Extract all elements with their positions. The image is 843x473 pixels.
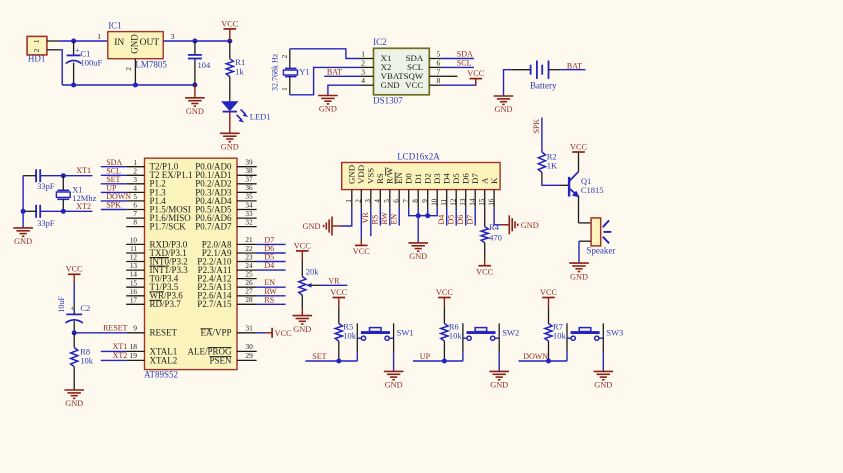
value SW1 label (397, 328, 414, 338)
svg-text:14: 14 (130, 271, 138, 279)
svg-text:GND: GND (570, 272, 588, 281)
svg-text:1: 1 (345, 199, 353, 203)
net label RS (264, 295, 274, 304)
svg-text:VCC: VCC (570, 142, 588, 151)
svg-text:8: 8 (411, 199, 419, 203)
pin 8 (429, 76, 442, 85)
svg-text:K: K (489, 177, 499, 184)
wire (442, 66, 474, 68)
pin 26 (237, 279, 257, 287)
svg-text:26: 26 (245, 279, 253, 287)
svg-text:9: 9 (421, 199, 429, 203)
svg-text:P1.7/SCK: P1.7/SCK (150, 222, 187, 232)
pin 6 (392, 190, 400, 208)
value R7 label (553, 322, 567, 341)
svg-text:37: 37 (245, 176, 253, 184)
svg-text:38: 38 (245, 167, 253, 175)
svg-text:D6: D6 (456, 215, 465, 225)
net label VR (328, 276, 340, 285)
power VCC (467, 69, 485, 85)
connector HD1 (27, 36, 59, 63)
svg-text:D5: D5 (447, 215, 456, 225)
crystal X1 (56, 176, 70, 212)
svg-text:GND: GND (221, 143, 239, 152)
ground (293, 316, 313, 334)
net label SET (312, 352, 326, 361)
ground (569, 263, 589, 281)
svg-text:20k: 20k (306, 267, 320, 277)
pin 2 (125, 59, 136, 85)
pin 21 (237, 236, 257, 244)
svg-text:XTAL2: XTAL2 (150, 355, 178, 365)
pin 13 (126, 262, 144, 270)
U1 pin names (150, 162, 232, 366)
svg-text:AT89S52: AT89S52 (144, 370, 178, 380)
net label XT2 (113, 351, 128, 360)
power VCC (540, 288, 558, 308)
net label UP (420, 352, 431, 361)
wire (566, 352, 568, 361)
svg-text:15: 15 (478, 198, 486, 206)
svg-text:27: 27 (245, 288, 253, 296)
svg-text:17: 17 (130, 296, 138, 304)
wire (602, 352, 604, 371)
pin 2 (280, 54, 289, 58)
svg-text:10k: 10k (343, 331, 357, 341)
wire (40, 210, 92, 212)
svg-text:D4: D4 (437, 215, 446, 225)
value 104 label (198, 60, 212, 70)
net label SET (106, 175, 120, 184)
svg-text:GND: GND (319, 105, 337, 114)
ground (64, 390, 84, 408)
svg-text:GND: GND (14, 237, 32, 246)
LCD pin names (346, 165, 498, 184)
ground (489, 371, 509, 389)
svg-text:BAT: BAT (567, 61, 582, 70)
svg-text:23: 23 (245, 253, 253, 261)
svg-text:XT2: XT2 (113, 351, 128, 360)
wire (427, 208, 429, 216)
pin 16 (487, 190, 495, 208)
wire (324, 75, 360, 77)
svg-text:D5: D5 (451, 173, 461, 184)
switch SW2 (463, 323, 499, 352)
svg-text:31: 31 (245, 323, 253, 332)
svg-text:SPK: SPK (106, 201, 121, 210)
pin 4 (374, 190, 382, 208)
pin 1 (97, 32, 101, 41)
wire (74, 332, 126, 334)
net label SPK (106, 201, 121, 210)
junction (71, 83, 76, 88)
net label RESET (103, 323, 128, 332)
wire (541, 118, 543, 153)
svg-text:9: 9 (133, 323, 137, 332)
svg-text:VCC: VCC (66, 265, 84, 274)
wire (519, 360, 568, 362)
svg-text:RS: RS (371, 215, 380, 225)
pin 3 (126, 176, 144, 184)
svg-text:100uF: 100uF (81, 58, 103, 68)
svg-text:29: 29 (245, 351, 253, 360)
svg-text:34: 34 (245, 201, 253, 209)
pin 5 (126, 193, 144, 201)
pin 13 (459, 190, 467, 208)
net label D5 (447, 215, 456, 225)
value R5 label (343, 322, 357, 341)
svg-text:RW: RW (380, 212, 389, 225)
svg-text:HD1: HD1 (28, 53, 46, 63)
svg-text:1K: 1K (547, 160, 558, 170)
svg-text:5: 5 (383, 199, 391, 203)
speaker LS1 (591, 218, 611, 246)
svg-text:RESET: RESET (103, 323, 128, 332)
svg-text:1: 1 (133, 159, 137, 167)
svg-text:VCC: VCC (353, 247, 371, 256)
svg-text:28: 28 (245, 296, 253, 304)
net label D4 (264, 261, 274, 270)
wire (320, 284, 348, 286)
resistor R5 (335, 308, 342, 362)
svg-text:2: 2 (280, 54, 289, 58)
svg-text:OUT: OUT (140, 38, 160, 48)
wire (305, 360, 357, 362)
net label SPK (532, 119, 541, 134)
net label UP (106, 184, 117, 193)
wire (101, 166, 126, 168)
svg-text:VCC: VCC (221, 19, 239, 28)
svg-text:10: 10 (130, 237, 138, 245)
pin 11 (126, 245, 144, 253)
svg-text:VCC: VCC (275, 329, 293, 338)
net label D6 (456, 215, 465, 225)
junction (72, 330, 77, 335)
svg-text:GND: GND (346, 165, 356, 184)
svg-text:5: 5 (437, 50, 441, 59)
power VCC (66, 265, 84, 284)
svg-text:XT1: XT1 (76, 166, 91, 175)
capacitor C1 (66, 41, 82, 85)
potentiometer RV1 20k (299, 260, 320, 316)
ground (318, 96, 338, 114)
wire (370, 208, 372, 237)
pin 24 (237, 262, 257, 270)
svg-text:XT1: XT1 (113, 342, 128, 351)
wire (194, 85, 196, 98)
svg-text:DOWN: DOWN (523, 352, 548, 361)
svg-text:GND: GND (521, 221, 539, 230)
svg-text:LED1: LED1 (250, 111, 271, 121)
svg-text:36: 36 (245, 184, 253, 192)
svg-text:RS: RS (264, 295, 274, 304)
wire (101, 191, 126, 193)
pin 9 (421, 190, 429, 208)
resistor R7 (545, 308, 552, 362)
svg-text:GND: GND (293, 325, 311, 334)
svg-text:VCC: VCC (436, 288, 454, 297)
junction (192, 83, 197, 88)
svg-text:IC2: IC2 (373, 37, 387, 47)
svg-text:33pF: 33pF (37, 218, 55, 228)
svg-text:2: 2 (33, 48, 41, 52)
LED D1 (221, 101, 248, 122)
pin 9 (126, 323, 144, 332)
svg-text:13: 13 (130, 262, 138, 270)
wire (229, 112, 231, 134)
svg-text:C2: C2 (80, 303, 90, 313)
pin 34 (237, 201, 257, 209)
ground (303, 217, 341, 236)
svg-text:3: 3 (361, 67, 365, 76)
wire (163, 40, 230, 42)
power VCC (330, 288, 348, 308)
svg-text:SPK: SPK (532, 119, 541, 134)
net label D7 (466, 215, 475, 225)
svg-text:D3: D3 (432, 173, 442, 184)
junction (546, 359, 551, 364)
pin 2 (361, 58, 374, 67)
svg-text:104: 104 (198, 60, 212, 70)
ground (501, 215, 539, 234)
ground (594, 371, 614, 389)
pin 35 (237, 193, 257, 201)
ground (13, 228, 33, 246)
net label SCL (106, 166, 121, 175)
svg-text:8: 8 (437, 76, 441, 85)
wire (579, 222, 592, 224)
svg-text:2: 2 (133, 167, 137, 175)
resistor R4 (481, 208, 488, 259)
junction (192, 39, 197, 44)
svg-text:GND: GND (303, 222, 321, 231)
svg-text:GND: GND (129, 34, 139, 54)
svg-text:33pF: 33pF (37, 181, 55, 191)
wire (356, 352, 358, 361)
value X1 label (72, 184, 96, 203)
wire (101, 183, 126, 185)
power VCC (436, 288, 454, 308)
svg-text:VCC: VCC (476, 267, 494, 276)
pin 1 (280, 87, 289, 91)
wire (389, 208, 391, 226)
wire (40, 175, 92, 177)
net label SDA (106, 158, 122, 167)
net label SCL (457, 59, 472, 68)
pin 7 (126, 210, 144, 218)
wire (257, 252, 286, 254)
wire (257, 286, 286, 288)
svg-text:1: 1 (280, 87, 289, 91)
net label D6 (264, 244, 274, 253)
wire (446, 208, 448, 226)
pin 17 (126, 296, 144, 304)
svg-text:1: 1 (361, 50, 365, 59)
svg-text:11: 11 (440, 198, 448, 205)
wire (504, 70, 512, 96)
svg-text:SCL: SCL (457, 59, 472, 68)
svg-text:7: 7 (402, 199, 410, 203)
junction (133, 83, 138, 88)
svg-text:6: 6 (133, 202, 137, 210)
svg-text:10: 10 (430, 198, 438, 206)
wire (101, 359, 126, 361)
wire (341, 208, 352, 226)
pin 2 (355, 190, 363, 208)
wire (62, 84, 195, 86)
svg-text:IC1: IC1 (108, 21, 122, 31)
net label EN (390, 214, 399, 225)
svg-text:7: 7 (133, 210, 137, 218)
wire (257, 303, 286, 305)
svg-text:RS: RS (375, 173, 385, 184)
svg-text:32: 32 (245, 218, 253, 226)
net label SDA (457, 50, 473, 59)
wire (257, 269, 286, 271)
svg-text:VSS: VSS (365, 168, 375, 184)
svg-text:1: 1 (33, 39, 41, 43)
net label D7 (264, 235, 274, 244)
net label XT1 (113, 342, 128, 351)
wire (474, 208, 476, 226)
svg-text:D4: D4 (441, 173, 451, 184)
resistor R2 (538, 152, 545, 183)
value Q1 label (581, 176, 604, 195)
svg-text:DS1307: DS1307 (373, 96, 403, 106)
junction (61, 173, 66, 178)
pin 4 (126, 185, 144, 193)
resistor R8 (71, 333, 78, 390)
power VCC (221, 19, 239, 41)
pin 4 (361, 76, 374, 85)
junction (416, 213, 421, 218)
value 33pF label (37, 181, 55, 191)
svg-text:4: 4 (361, 76, 365, 85)
net label RS (371, 215, 380, 225)
svg-text:P2.7/A15: P2.7/A15 (197, 299, 232, 309)
power VCC (353, 239, 371, 256)
wire (257, 261, 286, 263)
pin 14 (126, 271, 144, 279)
wire (257, 243, 286, 245)
pin 10 (126, 237, 144, 245)
svg-text:470: 470 (489, 233, 502, 243)
wire (59, 40, 107, 42)
svg-text:C1815: C1815 (581, 185, 604, 195)
value SW3 label (606, 328, 623, 338)
wire (257, 332, 265, 334)
pin 32 (237, 218, 257, 226)
svg-text:21: 21 (245, 236, 253, 244)
svg-text:VDD: VDD (356, 165, 366, 184)
svg-text:IN: IN (114, 38, 124, 48)
svg-text:11: 11 (130, 245, 137, 253)
junction (425, 213, 430, 218)
wire (257, 295, 286, 297)
value SW2 label (502, 328, 519, 338)
wire (409, 208, 438, 216)
wire (398, 208, 400, 226)
pin 38 (237, 167, 257, 175)
svg-text:XT2: XT2 (76, 202, 91, 211)
svg-text:19: 19 (130, 351, 138, 360)
pin 15 (478, 190, 486, 208)
net label RW (380, 212, 389, 225)
svg-text:5: 5 (133, 193, 137, 201)
ground (185, 98, 205, 116)
svg-text:3: 3 (364, 199, 372, 203)
crystal Y1 (283, 49, 297, 95)
value 33pF label (37, 218, 55, 228)
svg-text:VR: VR (328, 276, 340, 285)
pin 12 (449, 190, 457, 208)
svg-text:10k: 10k (553, 331, 567, 341)
svg-text:GND: GND (594, 381, 612, 390)
svg-text:SDA: SDA (457, 50, 473, 59)
svg-text:24: 24 (245, 262, 253, 270)
switch SW3 (567, 323, 603, 352)
pin 3 (364, 190, 372, 208)
power VCC (476, 259, 494, 276)
wire (290, 49, 361, 59)
pin 12 (126, 254, 144, 262)
pin 5 (383, 190, 391, 208)
RTC IC2 (373, 37, 429, 105)
svg-text:GND: GND (186, 107, 204, 116)
svg-text:14: 14 (468, 198, 476, 206)
svg-text:1k: 1k (235, 66, 244, 76)
svg-text:SET: SET (312, 352, 326, 361)
wire (494, 208, 509, 225)
net label EN (264, 278, 275, 287)
value Speaker label (586, 245, 615, 255)
svg-text:15: 15 (130, 279, 138, 287)
wire (101, 174, 126, 176)
wire (328, 85, 361, 95)
svg-text:+: + (70, 304, 75, 313)
net label XT2 (76, 202, 91, 211)
wire (542, 183, 560, 185)
wire (579, 241, 591, 263)
net label VR (361, 212, 370, 224)
pin 29 (237, 351, 257, 360)
svg-text:10uF: 10uF (57, 296, 66, 313)
svg-text:18: 18 (130, 342, 138, 351)
value Battery label (530, 80, 557, 90)
svg-text:GND: GND (495, 105, 513, 114)
pin 10 (430, 190, 438, 208)
pin 3 (171, 32, 175, 41)
pin 1 (345, 190, 353, 208)
ground (384, 371, 404, 389)
svg-text:SW1: SW1 (397, 328, 414, 338)
svg-text:VCC: VCC (540, 288, 558, 297)
svg-text:6: 6 (437, 58, 441, 67)
wire (101, 209, 126, 211)
pin 31 (237, 323, 257, 332)
resistor R1 (226, 41, 233, 101)
pin 36 (237, 184, 257, 192)
svg-text:VR: VR (361, 212, 370, 224)
ground (408, 243, 428, 261)
pin 8 (411, 190, 419, 208)
pin 19 (126, 351, 144, 360)
svg-text:39: 39 (245, 159, 253, 167)
capacitor C2 (66, 304, 83, 333)
svg-text:SW2: SW2 (502, 328, 519, 338)
svg-text:4: 4 (133, 185, 137, 193)
pin 14 (468, 190, 476, 208)
